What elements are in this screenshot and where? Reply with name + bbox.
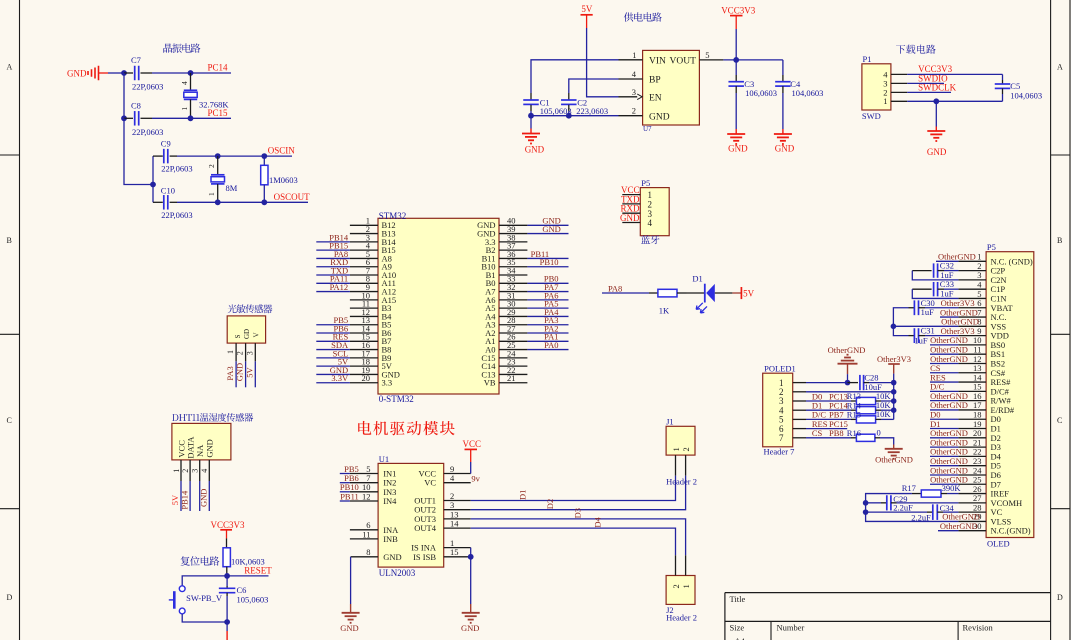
pin 9 VCC bbox=[419, 464, 471, 479]
wire net PA2 bbox=[527, 332, 568, 334]
svg-text:8M: 8M bbox=[226, 183, 238, 193]
wire OUT3 D3 to J2 bbox=[471, 519, 686, 555]
wire VIN left bbox=[531, 60, 619, 93]
junction bbox=[733, 57, 739, 63]
svg-text:GND: GND bbox=[775, 144, 795, 154]
title 复位电路 bbox=[181, 556, 220, 566]
pin 15 IS ISB bbox=[413, 547, 471, 562]
svg-text:2: 2 bbox=[671, 584, 681, 588]
wire R14 to rail bbox=[881, 409, 894, 411]
svg-text:390K: 390K bbox=[942, 483, 962, 493]
svg-text:3.3: 3.3 bbox=[382, 378, 393, 388]
svg-text:22P,0603: 22P,0603 bbox=[132, 82, 163, 92]
wire BP to C2 bbox=[569, 79, 619, 93]
pin 32 A7 bbox=[485, 282, 527, 297]
pin 33 B0 bbox=[486, 274, 528, 289]
svg-text:C34: C34 bbox=[940, 503, 955, 513]
pin 10 IN3 bbox=[350, 482, 397, 497]
wire GND to C7/C8 bbox=[108, 72, 124, 74]
svg-text:D1: D1 bbox=[518, 490, 528, 500]
svg-text:12: 12 bbox=[362, 491, 371, 501]
pin 7 N.C. bbox=[958, 307, 1006, 322]
svg-text:IN4: IN4 bbox=[383, 496, 397, 506]
svg-text:GND: GND bbox=[461, 623, 479, 633]
svg-text:3: 3 bbox=[191, 469, 200, 473]
svg-text:GND: GND bbox=[525, 145, 545, 155]
wire to 1M resistor bbox=[218, 155, 265, 157]
pin 12 B4 bbox=[350, 307, 392, 322]
wire PC14 stub bbox=[191, 72, 232, 74]
pin 39 GND bbox=[477, 224, 527, 239]
svg-text:1uF: 1uF bbox=[940, 288, 954, 298]
pin 4 VC bbox=[424, 473, 471, 488]
wire PB14 (DHT11) bbox=[189, 481, 191, 511]
pin 22 C13 bbox=[481, 365, 527, 380]
svg-text:BP: BP bbox=[649, 76, 661, 86]
wire to bottom ground bbox=[226, 622, 228, 631]
pin 7 IN2 bbox=[350, 473, 397, 488]
wire to switch bbox=[182, 576, 227, 586]
svg-text:SWDCLK: SWDCLK bbox=[918, 83, 957, 93]
svg-text:INB: INB bbox=[383, 534, 398, 544]
wire C10 to 8M bbox=[177, 201, 218, 203]
wire R17 to gnd rail bbox=[866, 494, 959, 522]
wire pin25 label bbox=[930, 483, 958, 485]
pin 30 A5 bbox=[485, 299, 527, 314]
pin 13 OUT3 bbox=[414, 509, 470, 524]
svg-text:IS ISB: IS ISB bbox=[413, 552, 436, 562]
svg-text:OLED: OLED bbox=[987, 538, 1010, 548]
regulator U7 bbox=[643, 50, 700, 133]
svg-text:PB8: PB8 bbox=[829, 428, 844, 438]
svg-text:2: 2 bbox=[181, 469, 190, 473]
title 晶振电路 bbox=[163, 43, 200, 53]
pin 1 IS INA bbox=[411, 538, 470, 553]
svg-text:1uF: 1uF bbox=[921, 307, 935, 317]
svg-text:VIN: VIN bbox=[649, 57, 666, 67]
pin 11 B3 bbox=[350, 299, 392, 314]
svg-text:PC14: PC14 bbox=[208, 63, 229, 73]
wire net PB11 bbox=[340, 500, 350, 502]
pin 2 OUT1 bbox=[414, 491, 470, 506]
svg-text:GND: GND bbox=[927, 147, 947, 157]
junction bbox=[891, 380, 897, 386]
svg-text:GND: GND bbox=[67, 69, 87, 79]
wire net 3.3V bbox=[316, 382, 350, 384]
wire pin6 row bbox=[806, 428, 847, 430]
wire pin1 label bbox=[936, 260, 958, 262]
wire pin24 label bbox=[930, 474, 958, 476]
svg-text:EN: EN bbox=[649, 94, 662, 104]
wire GND (sensor) bbox=[245, 361, 247, 387]
ground OtherGND (R16) bbox=[875, 445, 913, 465]
pin 36 B11 bbox=[482, 249, 528, 264]
ground (reset, cut off) bbox=[226, 631, 228, 640]
pin 4 C1P bbox=[958, 279, 1005, 294]
svg-text:C6: C6 bbox=[237, 585, 247, 595]
rail Other3V3 bbox=[893, 383, 895, 420]
wire VOUT right bbox=[723, 59, 783, 61]
pin 5 VOUT bbox=[699, 50, 723, 60]
svg-text:1M0603: 1M0603 bbox=[269, 175, 298, 185]
pin 1 N.C. (GND) bbox=[958, 252, 1033, 267]
pin 2 GND bbox=[619, 106, 643, 116]
svg-text:104,0603: 104,0603 bbox=[792, 88, 824, 98]
svg-text:GND: GND bbox=[728, 144, 748, 154]
svg-text:223,0603: 223,0603 bbox=[576, 106, 608, 116]
capacitor C7 bbox=[124, 55, 163, 92]
pin 2 bbox=[891, 91, 907, 93]
pin 3 DHT11 bbox=[191, 460, 200, 481]
svg-text:POLED1: POLED1 bbox=[764, 364, 796, 374]
wire pin1 to C28 bbox=[806, 382, 848, 384]
junction bbox=[528, 113, 534, 119]
svg-text:P1: P1 bbox=[863, 54, 872, 64]
svg-text:DATA: DATA bbox=[186, 436, 196, 459]
pin 5 C1N bbox=[958, 289, 1006, 304]
pin 1 B12 bbox=[350, 216, 396, 231]
capacitor C30 bbox=[909, 298, 959, 317]
wire net RXD bbox=[316, 266, 350, 268]
wire RESET stub bbox=[227, 575, 268, 577]
wire net PB15 bbox=[316, 249, 350, 251]
wire pin16 label bbox=[930, 400, 958, 402]
svg-text:14: 14 bbox=[450, 519, 459, 529]
wire net PA4 bbox=[527, 315, 568, 317]
svg-text:C10: C10 bbox=[161, 185, 175, 195]
pin 16 B8 bbox=[350, 340, 392, 355]
wire C8 to crystal bbox=[152, 117, 191, 119]
pin 9 A12 bbox=[350, 282, 396, 297]
svg-text:D2: D2 bbox=[545, 499, 555, 509]
wire C1 down bbox=[530, 111, 532, 116]
ground IS ISB bbox=[462, 557, 480, 623]
wire C30/C31 gnd loop bbox=[893, 308, 908, 336]
svg-text:22P,0603: 22P,0603 bbox=[161, 164, 192, 174]
junction bbox=[891, 324, 897, 330]
capacitor C8 bbox=[124, 100, 163, 137]
svg-text:3: 3 bbox=[245, 351, 254, 355]
wire switch bottom bbox=[182, 614, 227, 622]
svg-text:C5: C5 bbox=[1010, 81, 1020, 91]
pin 19 D1 bbox=[958, 419, 1000, 434]
svg-text:CS: CS bbox=[812, 428, 823, 438]
pin 4 bbox=[622, 222, 640, 224]
wire net PA5 bbox=[527, 307, 568, 309]
wire OSCOUT stub bbox=[264, 201, 308, 203]
svg-text:PB11: PB11 bbox=[340, 491, 359, 501]
pin 11 INB bbox=[350, 529, 398, 544]
wire pin7 label bbox=[940, 316, 958, 318]
svg-text:VB: VB bbox=[484, 378, 496, 388]
svg-text:104,0603: 104,0603 bbox=[1010, 91, 1042, 101]
pin 9 VDD bbox=[958, 326, 1009, 341]
pin 8 VSS bbox=[958, 317, 1006, 332]
svg-text:3: 3 bbox=[632, 87, 636, 97]
pin 12 IN4 bbox=[350, 491, 397, 506]
driver U1 ULN2003 bbox=[378, 454, 444, 578]
svg-text:PA3: PA3 bbox=[225, 366, 235, 380]
svg-text:N.C.(GND): N.C.(GND) bbox=[991, 526, 1031, 536]
svg-text:5: 5 bbox=[705, 50, 709, 60]
pin 15 D/C# bbox=[958, 382, 1009, 397]
svg-text:V: V bbox=[252, 332, 260, 337]
junction bbox=[566, 113, 572, 119]
junction bbox=[468, 554, 474, 560]
svg-text:PA12: PA12 bbox=[330, 282, 349, 292]
junction bbox=[933, 98, 939, 104]
svg-text:5V: 5V bbox=[743, 288, 755, 298]
pin 16 R/W# bbox=[958, 391, 1011, 406]
pin 21 VB bbox=[484, 373, 528, 388]
pin 25 D7 bbox=[958, 475, 1000, 490]
pin 2 POLED1 bbox=[793, 391, 806, 393]
wire net PB6 bbox=[316, 332, 350, 334]
wire pin1 row bbox=[907, 100, 1002, 102]
svg-text:P5: P5 bbox=[987, 242, 996, 252]
power port 5V (LED) bbox=[732, 287, 754, 299]
svg-text:C7: C7 bbox=[131, 55, 141, 65]
pin 3 POLED1 bbox=[793, 400, 806, 402]
wire R16 to ground bbox=[880, 438, 894, 445]
junction bbox=[891, 407, 897, 413]
junction bbox=[224, 619, 230, 625]
pin 24 C15 bbox=[481, 348, 527, 363]
wire net PB11 bbox=[527, 257, 568, 259]
pin 31 A6 bbox=[485, 290, 527, 305]
svg-text:B: B bbox=[7, 236, 12, 245]
wire pin17 label bbox=[930, 409, 958, 411]
wire pin15 label bbox=[930, 390, 958, 392]
wire net PB5 bbox=[340, 473, 350, 475]
svg-text:PA0: PA0 bbox=[544, 340, 558, 350]
svg-text:2: 2 bbox=[207, 164, 216, 168]
wire col down to OSC caps bbox=[124, 118, 153, 184]
pin 29 A4 bbox=[485, 307, 527, 322]
svg-text:OSCIN: OSCIN bbox=[268, 146, 296, 156]
wire GND (DHT11) bbox=[208, 481, 210, 511]
title 光敏传感器 bbox=[228, 304, 273, 313]
svg-text:5V: 5V bbox=[244, 367, 254, 378]
svg-text:OtherGND: OtherGND bbox=[940, 521, 978, 531]
svg-text:5V: 5V bbox=[581, 4, 593, 14]
svg-text:R16: R16 bbox=[847, 428, 861, 438]
svg-text:15: 15 bbox=[450, 547, 459, 557]
svg-text:D: D bbox=[1057, 593, 1063, 602]
pin 2 B13 bbox=[350, 224, 396, 239]
junction bbox=[215, 153, 221, 159]
svg-text:GND: GND bbox=[235, 363, 245, 381]
power port VCC3V3 (supply) bbox=[721, 6, 756, 30]
junction bbox=[891, 398, 897, 404]
title DHT11 sensor bbox=[172, 413, 253, 422]
wire IS INA down bbox=[470, 548, 472, 557]
svg-text:VCC3V3: VCC3V3 bbox=[721, 6, 756, 16]
pin 24 D6 bbox=[958, 465, 1000, 480]
wire C28 to rail bbox=[869, 382, 894, 384]
pin 35 B10 bbox=[481, 257, 527, 272]
pin 27 A2 bbox=[485, 323, 527, 338]
wire VCC3V3 down bbox=[735, 29, 737, 75]
svg-text:U1: U1 bbox=[379, 454, 389, 464]
junction bbox=[891, 389, 897, 395]
svg-text:8: 8 bbox=[366, 547, 370, 557]
svg-text:Header 7: Header 7 bbox=[764, 446, 795, 456]
svg-text:VCC3V3: VCC3V3 bbox=[211, 520, 246, 530]
switch SW-PB_V bbox=[169, 586, 223, 614]
power port GND (crystal) bbox=[67, 66, 108, 81]
connector P5 bluetooth bbox=[640, 178, 669, 236]
pin 5 IN1 bbox=[350, 464, 397, 479]
wire net PB10 bbox=[340, 491, 350, 493]
junction bbox=[261, 199, 267, 205]
pin 21 D3 bbox=[958, 437, 1000, 452]
svg-text:Other3V3: Other3V3 bbox=[877, 354, 911, 364]
capacitor C10 bbox=[153, 185, 193, 220]
power port Other3V3 (POLED1) bbox=[877, 354, 911, 383]
junction bbox=[188, 70, 194, 76]
wire C33 loop bbox=[912, 289, 958, 298]
svg-text:1: 1 bbox=[226, 350, 235, 354]
wire C32 loop bbox=[912, 271, 958, 280]
svg-text:U7: U7 bbox=[643, 125, 652, 133]
svg-text:R15: R15 bbox=[847, 410, 861, 420]
svg-text:D3: D3 bbox=[573, 508, 583, 518]
pin 17 E/RD# bbox=[958, 400, 1014, 415]
ground OtherGND (POLED1) bbox=[838, 355, 858, 383]
wire 5V (sensor) bbox=[254, 361, 256, 387]
wire pin5 row bbox=[806, 418, 851, 420]
resistor R17 390K bbox=[902, 483, 962, 497]
wire pin19 label bbox=[930, 428, 958, 430]
pin 3 bbox=[622, 212, 640, 214]
svg-text:2: 2 bbox=[681, 447, 691, 451]
capacitor C4 bbox=[775, 75, 823, 98]
svg-text:7: 7 bbox=[779, 433, 784, 443]
pin 5 POLED1 bbox=[793, 418, 806, 420]
wire net SCL bbox=[316, 357, 350, 359]
title block bbox=[725, 593, 1051, 640]
pin 20 3.3 bbox=[350, 373, 392, 388]
pin 18 5V bbox=[350, 357, 393, 372]
pin 26 IREF bbox=[958, 484, 1009, 499]
svg-text:GD: GD bbox=[243, 329, 251, 339]
wire to C4 bbox=[782, 60, 784, 75]
pin 29 VLSS bbox=[958, 512, 1011, 527]
svg-text:D1: D1 bbox=[692, 274, 702, 284]
pin 3 C2N bbox=[958, 270, 1006, 285]
wire pin14 label bbox=[930, 381, 958, 383]
svg-text:GND: GND bbox=[620, 213, 640, 223]
resistor 10K,0603 bbox=[223, 538, 265, 576]
pin 17 B9 bbox=[350, 348, 392, 363]
power port VCC3V3 (reset) bbox=[211, 520, 246, 538]
wire net PB6 bbox=[340, 482, 350, 484]
svg-text:D: D bbox=[7, 593, 13, 602]
pin 1 J2 bbox=[685, 555, 687, 575]
wire net PA12 bbox=[316, 291, 350, 293]
pin 28 VC bbox=[958, 502, 1002, 517]
svg-text:C: C bbox=[7, 416, 12, 425]
svg-text:2: 2 bbox=[632, 106, 636, 116]
svg-text:PA8: PA8 bbox=[608, 283, 622, 293]
pin 3 bbox=[245, 343, 255, 361]
ground P1 bbox=[927, 101, 947, 157]
svg-text:1: 1 bbox=[632, 50, 636, 60]
svg-text:C: C bbox=[1057, 416, 1062, 425]
wire pin13 label bbox=[930, 372, 958, 374]
wire net PB5 bbox=[316, 324, 350, 326]
svg-text:1uF: 1uF bbox=[914, 336, 928, 346]
wire 5V (DHT11) bbox=[180, 481, 182, 511]
pin 19 GND bbox=[350, 365, 400, 380]
wire pin18 label bbox=[930, 418, 958, 420]
wire pin2 row bbox=[806, 391, 894, 393]
wire pin3 (DHT11) bbox=[199, 481, 201, 511]
wire PA8 bbox=[602, 292, 649, 294]
pin 23 D5 bbox=[958, 456, 1000, 471]
ground C4 bbox=[774, 93, 795, 154]
svg-text:Header 2: Header 2 bbox=[666, 613, 697, 623]
wire GND row bbox=[531, 115, 619, 117]
svg-text:Number: Number bbox=[777, 623, 805, 633]
power port 5V (supply) bbox=[581, 4, 593, 28]
svg-text:A: A bbox=[7, 63, 13, 72]
svg-text:OSCOUT: OSCOUT bbox=[274, 192, 311, 202]
pin 3 bbox=[891, 82, 907, 84]
svg-text:3.3V: 3.3V bbox=[331, 373, 349, 383]
wire pin30 label bbox=[938, 530, 958, 532]
ground C1 bbox=[522, 116, 545, 155]
pin 14 RES# bbox=[958, 372, 1011, 387]
wire to 1M bottom bbox=[218, 201, 265, 203]
wire pin10 label bbox=[930, 344, 958, 346]
svg-text:OUT4: OUT4 bbox=[414, 523, 436, 533]
pin 37 B2 bbox=[486, 241, 528, 256]
wire pin12 label bbox=[930, 362, 958, 364]
wire PC15 stub bbox=[191, 117, 232, 119]
wire net PA6 bbox=[527, 299, 568, 301]
pin 3 OUT2 bbox=[414, 500, 470, 515]
wire net GND bbox=[527, 224, 568, 226]
svg-text:RESET: RESET bbox=[244, 566, 272, 576]
pin 40 GND bbox=[477, 216, 527, 231]
pin 6 INA bbox=[350, 520, 399, 535]
pin 7 POLED1 bbox=[793, 437, 806, 439]
wire VCC3V3 row bbox=[907, 73, 1002, 75]
wire net PA1 bbox=[527, 340, 568, 342]
pin 38 3.3 bbox=[485, 232, 528, 247]
wire 5V down to EN bbox=[587, 28, 619, 97]
svg-text:2.2uF: 2.2uF bbox=[893, 503, 913, 513]
wire OSCIN stub bbox=[264, 155, 292, 157]
pin 4 DHT11 bbox=[200, 460, 209, 481]
wire pin23 label bbox=[930, 465, 958, 467]
wire to C9 bbox=[152, 156, 154, 184]
svg-text:D4: D4 bbox=[592, 516, 602, 527]
pin 22 D4 bbox=[958, 447, 1001, 462]
wire C9 to 8M bbox=[177, 155, 218, 157]
wire net GND bbox=[316, 373, 350, 375]
wire net 5V bbox=[316, 365, 350, 367]
svg-text:GND: GND bbox=[383, 552, 401, 562]
capacitor C31 bbox=[909, 326, 959, 346]
crystal 8M bbox=[207, 156, 238, 202]
wire pin3 row bbox=[806, 400, 851, 402]
svg-text:1: 1 bbox=[207, 192, 216, 196]
ground C3 bbox=[727, 93, 748, 154]
svg-text:A: A bbox=[1057, 63, 1063, 72]
